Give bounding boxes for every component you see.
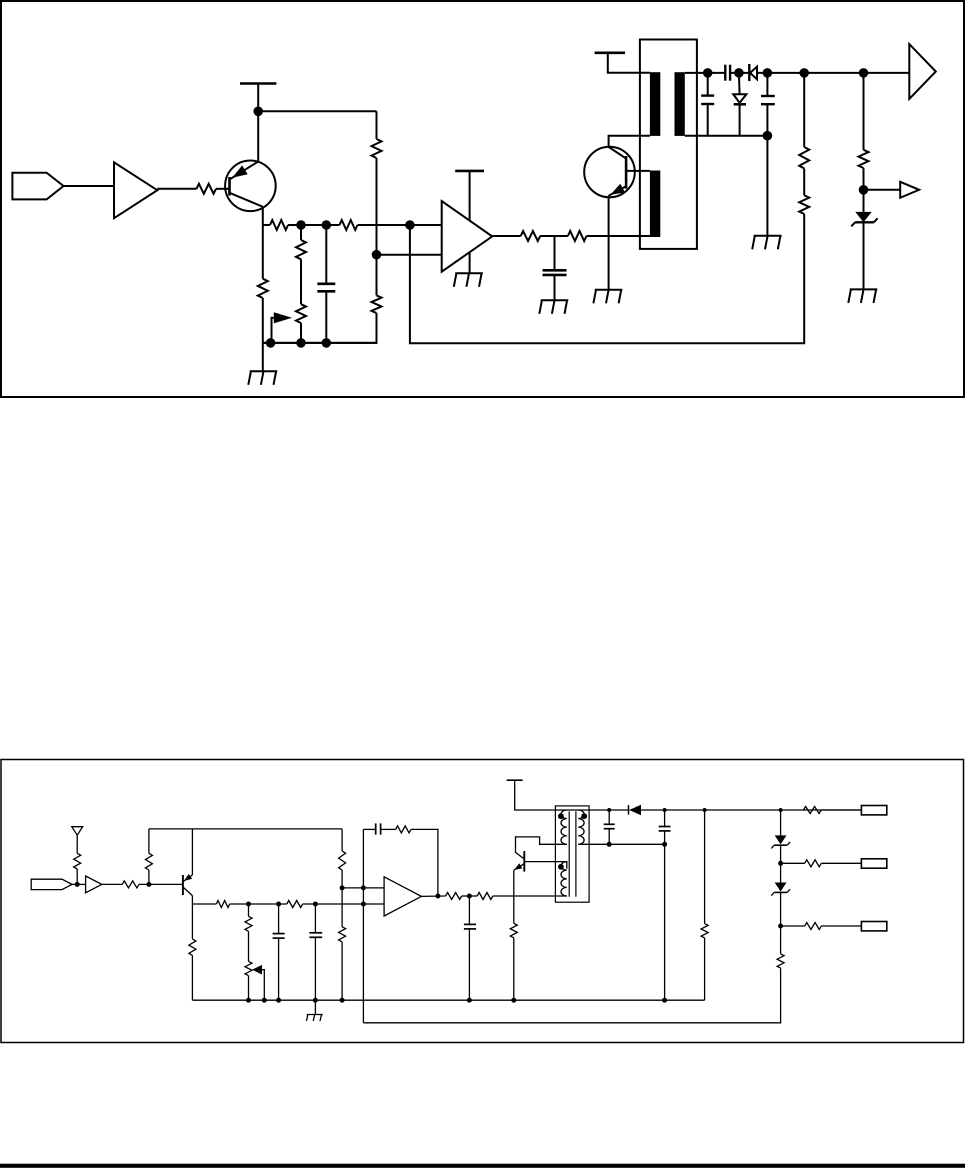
resistor R3v xyxy=(372,295,382,313)
rail dot xyxy=(262,998,267,1003)
+input wire xyxy=(342,887,384,889)
drive wire to winding xyxy=(493,895,567,897)
bottom return line from PT1 xyxy=(685,135,768,137)
PT1 electrode bar 2 xyxy=(675,72,685,136)
node dot +in xyxy=(361,885,366,890)
resistor R28 upper xyxy=(341,829,343,851)
resistor R25 xyxy=(216,901,229,908)
power rail V+ above Q1 xyxy=(240,82,276,85)
node dot divider2 top xyxy=(859,68,869,78)
op-amp U2 xyxy=(384,877,421,916)
transistor Q3 (PNP) xyxy=(182,875,184,895)
node dot capB top xyxy=(663,808,667,812)
resistor R31 xyxy=(446,893,462,900)
ground G1 xyxy=(250,370,278,372)
rail dot 3 xyxy=(322,338,332,348)
node dot C5 top xyxy=(763,68,773,78)
ground G3 xyxy=(541,299,569,301)
wire dot to resistor R3v xyxy=(376,255,378,296)
Q2 base wire to transformer xyxy=(626,170,650,172)
potentiometer VR1 xyxy=(296,304,306,323)
rail dot xyxy=(340,998,345,1003)
rectifier diode D3 xyxy=(628,805,630,815)
node dot chain B xyxy=(322,220,332,230)
pot wiper arrow xyxy=(272,318,275,343)
resistor R22 xyxy=(122,881,139,888)
rail dot xyxy=(662,998,667,1003)
capacitor C24 xyxy=(468,896,470,924)
wire drive to transformer electrode xyxy=(587,235,651,237)
input connector J1 xyxy=(12,173,63,200)
transformer T1 body xyxy=(555,806,589,902)
U1 ground xyxy=(469,253,471,273)
resistor R26 xyxy=(287,901,303,908)
network line xyxy=(192,903,216,905)
resistor R33 xyxy=(510,923,517,938)
resistor R5 xyxy=(270,220,288,230)
node dot +in rail xyxy=(340,885,345,890)
node dot divider1 top xyxy=(799,68,809,78)
bottom schematic frame xyxy=(1,760,964,1043)
node dot D2 top xyxy=(734,68,744,78)
Q4 collector step wire xyxy=(516,837,567,859)
feedback loop wire xyxy=(411,829,438,896)
resistor R38 out3 xyxy=(781,925,805,927)
capacitor C2 to ground xyxy=(554,236,556,270)
rail dot xyxy=(246,998,251,1003)
divider chain line xyxy=(263,224,270,226)
piezo transformer PT1 body xyxy=(640,40,697,249)
U1 - input wire xyxy=(377,254,442,256)
PT1 electrode bar 3 xyxy=(650,171,660,238)
transistor Q4 (NPN) xyxy=(523,851,525,872)
node dot sense output xyxy=(859,185,869,195)
potentiometer VR2 xyxy=(245,961,252,975)
node dot output xyxy=(435,894,440,899)
node dot chain C xyxy=(405,220,415,230)
node dot to op-amp inverting input xyxy=(372,250,382,260)
pot wiper arrow xyxy=(252,965,262,975)
zener diode Z2 xyxy=(780,810,782,835)
buffer amplifier A1 xyxy=(114,162,157,218)
node dot out2 xyxy=(778,861,783,866)
node dot capB junction xyxy=(662,842,667,847)
resistor R6 xyxy=(340,220,358,230)
node dot on emitter branch xyxy=(253,107,263,117)
output header OUT2 xyxy=(861,859,886,868)
bottom common rail xyxy=(192,999,704,1001)
wire R2 down through chain node xyxy=(376,158,378,255)
rail dot 2 xyxy=(296,338,306,348)
feedback vertical xyxy=(362,829,364,1022)
wire to ground G5 xyxy=(766,136,768,236)
resistor R7 (divider mid) xyxy=(300,225,302,240)
capacitor C22 xyxy=(314,904,316,932)
resistor R32 xyxy=(477,893,493,900)
T1 feedback winding W3 xyxy=(561,862,567,896)
output buffer A2 xyxy=(909,44,936,99)
T1 primary winding W1 xyxy=(561,810,567,844)
wire R3v to bottom rail corner xyxy=(263,313,377,343)
power rail V+ bottom schematic xyxy=(507,779,523,781)
resistor R37 out2 xyxy=(781,862,805,864)
wire to ground xyxy=(262,298,264,371)
zener diode Z1 xyxy=(863,190,865,212)
buffer amplifier A3 xyxy=(86,876,102,893)
wire A1 output to resistor R1 xyxy=(157,188,196,190)
resistor R8 xyxy=(521,231,541,241)
series diode D1 xyxy=(748,64,750,81)
wire chain to op-amp + input xyxy=(358,224,442,226)
U1 power rail xyxy=(455,170,484,173)
feedback divider resistor R10 xyxy=(803,73,805,147)
node dot D xyxy=(361,902,366,907)
node dot zener chain top xyxy=(779,808,783,812)
PT1 electrode bar 1 xyxy=(650,72,660,136)
ground G6 xyxy=(850,288,878,290)
node dot base Q3 xyxy=(146,882,151,887)
bottom rail of divider network xyxy=(263,342,377,344)
rail dot xyxy=(313,998,318,1003)
wire Q1 emitter to V+ xyxy=(257,84,259,162)
feedback resistor R30 xyxy=(381,828,396,830)
resistor R1 (base of Q1) xyxy=(197,184,217,194)
page footer rule xyxy=(0,1164,965,1168)
wire branch to resistor R2 xyxy=(258,110,376,112)
sense output arrow xyxy=(864,189,901,191)
feedback capacitor C23 xyxy=(363,828,375,830)
W1 polarity dot xyxy=(558,813,564,819)
resistor R27 divider xyxy=(248,904,250,916)
node dot C xyxy=(313,902,318,907)
node dot drive xyxy=(467,894,472,899)
top schematic frame xyxy=(1,1,964,397)
node dot return xyxy=(763,131,773,141)
node dot A xyxy=(246,902,251,907)
node dot R34 top xyxy=(703,808,707,812)
T1 core lines xyxy=(568,811,570,896)
resistor R34 bleed xyxy=(704,810,706,924)
rail dot xyxy=(511,998,516,1003)
top rail xyxy=(149,828,342,830)
node dot chain A xyxy=(296,220,306,230)
resistor R4v (emitter-leg) xyxy=(258,279,268,298)
resistor R23 pullup xyxy=(148,870,150,884)
node dot B xyxy=(276,902,281,907)
output header OUT3 xyxy=(861,922,886,931)
Q4 base wire xyxy=(524,862,567,869)
resistor R35 xyxy=(780,926,782,954)
output header OUT1 xyxy=(861,806,886,815)
Q2 emitter wire to ground xyxy=(608,196,610,290)
node dot C4 top xyxy=(703,68,713,78)
capacitor C4 xyxy=(707,73,709,95)
rail dot xyxy=(276,998,281,1003)
capacitor C26 xyxy=(664,810,666,826)
Q2 collector wire to transformer xyxy=(609,136,650,147)
feedback return wire xyxy=(410,214,804,343)
rail dot xyxy=(467,998,472,1003)
resistor R36 out1 xyxy=(803,807,821,814)
T1 secondary winding W2 xyxy=(578,810,584,844)
capacitor C21 xyxy=(278,904,280,933)
Q3 collector leg xyxy=(191,896,193,939)
ground G4 xyxy=(595,289,623,291)
resistor R29 lower xyxy=(341,888,343,927)
resistor R2 xyxy=(372,139,382,158)
resistor R9 xyxy=(568,231,587,241)
op-amp U1 xyxy=(442,201,493,272)
secondary return wire xyxy=(578,843,664,845)
W2 polarity dot xyxy=(581,813,587,819)
wire R1 to Q1 base xyxy=(216,188,230,190)
transistor Q2 (NPN) xyxy=(584,147,635,198)
node dot input xyxy=(75,882,80,887)
capacitor C25 xyxy=(608,810,610,824)
ground G5 xyxy=(754,235,782,237)
capacitor C5 xyxy=(766,73,768,96)
U1 + input wire xyxy=(410,224,442,226)
ground G7 below rail xyxy=(314,1000,316,1014)
output line from PT1 xyxy=(685,72,726,74)
wire J1 to buffer A1 xyxy=(64,185,115,187)
node dot out3 xyxy=(778,924,783,929)
U2 output wire xyxy=(421,895,445,897)
power rail V+ above transformer xyxy=(595,51,625,54)
feedback bottom wire xyxy=(363,968,780,1023)
node dot capA bottom xyxy=(607,842,612,847)
series capacitor C3 xyxy=(724,65,726,81)
shunt diode D2 xyxy=(738,73,741,94)
rail dot 1 xyxy=(266,338,276,348)
capacitor C1 xyxy=(325,225,327,283)
input connector J2 xyxy=(31,879,72,889)
node dot capA top xyxy=(607,808,611,812)
transistor Q1 (PNP) xyxy=(225,161,276,212)
W3 polarity dot xyxy=(558,864,564,870)
wire U1 output xyxy=(492,235,521,237)
feedback divider resistor R11 xyxy=(803,168,805,195)
wire Q1 collector down xyxy=(262,207,264,279)
output divider resistor R12 xyxy=(863,73,865,150)
Q4 emitter leg xyxy=(513,870,515,923)
antenna test point xyxy=(72,827,83,836)
resistor R21 xyxy=(74,853,81,869)
resistor R24 xyxy=(189,939,196,956)
zener diode Z3 xyxy=(780,863,782,882)
